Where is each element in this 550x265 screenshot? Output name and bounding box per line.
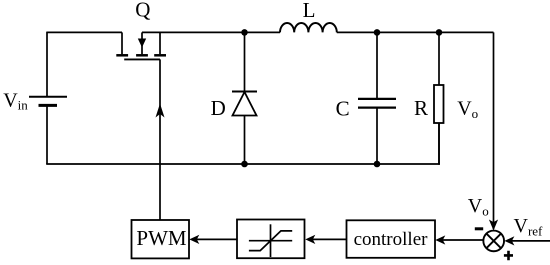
wire Vref input bbox=[512, 240, 550, 242]
wire controller to limiter bbox=[312, 238, 347, 240]
transistor Q bbox=[116, 32, 166, 59]
svg-text:controller: controller bbox=[354, 229, 429, 250]
limiter block bbox=[237, 220, 305, 259]
node dot diode top bbox=[241, 29, 248, 36]
node dot capacitor top bbox=[374, 29, 381, 36]
wire limiter to PWM bbox=[196, 238, 237, 240]
resistor R bbox=[434, 32, 444, 164]
svg-text:PWM: PWM bbox=[136, 226, 187, 250]
svg-text:C: C bbox=[336, 96, 350, 120]
wire bottom rail bbox=[46, 163, 440, 165]
wire gate lead PWM to Q bbox=[159, 59, 161, 220]
controller block bbox=[347, 220, 436, 257]
PWM block bbox=[132, 220, 190, 258]
battery Vin bbox=[29, 97, 67, 106]
svg-text:D: D bbox=[211, 96, 226, 120]
wire left vertical from rail to battery bbox=[46, 32, 48, 97]
arrow into PWM bbox=[189, 235, 199, 244]
wire top-left rail bbox=[47, 31, 122, 33]
node dot capacitor bottom bbox=[374, 161, 381, 168]
wire left vertical below battery bbox=[46, 105, 48, 164]
svg-text:L: L bbox=[303, 0, 316, 22]
label minus bbox=[475, 227, 483, 230]
arrow into controller bbox=[435, 235, 445, 244]
arrow down into summing node bbox=[489, 220, 498, 231]
wire top rail after L bbox=[337, 31, 494, 33]
arrow up on gate lead bbox=[156, 104, 165, 118]
limiter saturation symbol bbox=[249, 224, 292, 257]
inductor L bbox=[280, 23, 337, 32]
wire summing node to controller bbox=[442, 239, 483, 241]
node dot diode bottom bbox=[241, 161, 248, 168]
svg-text:Q: Q bbox=[135, 0, 150, 22]
wire resistor bottom corner bbox=[438, 123, 440, 165]
diode D bbox=[232, 32, 257, 164]
node dot resistor top bbox=[436, 29, 443, 36]
svg-text:R: R bbox=[414, 96, 428, 120]
summing junction circle bbox=[483, 231, 504, 252]
capacitor C bbox=[358, 32, 396, 164]
arrow into limiter bbox=[305, 235, 315, 244]
label plus bbox=[504, 251, 513, 260]
wire top rail right bbox=[142, 31, 280, 33]
wire feedback right vertical bbox=[493, 32, 495, 229]
arrow into summing node bbox=[504, 236, 514, 245]
